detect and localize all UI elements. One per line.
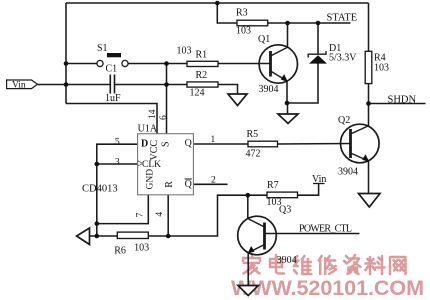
wire Q3 base POWER CTL — [265, 233, 360, 235]
svg-text:14: 14 — [148, 109, 158, 119]
port Vin terminal right — [312, 174, 326, 185]
junction pin 7 on D column — [95, 221, 100, 226]
wire pin 2 Qbar stub — [193, 183, 227, 185]
svg-text:GND: GND — [145, 169, 155, 190]
svg-text:SHDN: SHDN — [388, 95, 417, 106]
resistor R2 — [187, 70, 218, 99]
wire Q1 emitter to ground — [286, 81, 288, 103]
ground under Q3 — [238, 286, 258, 296]
wire ground stub Q1 — [287, 103, 289, 114]
wire Vin to VCC pin 14 — [66, 104, 157, 134]
svg-text:Q: Q — [185, 138, 193, 149]
wire STATE node — [268, 22, 351, 24]
zener diode D1 — [308, 43, 357, 64]
wire pin 3 CLK input — [97, 163, 138, 165]
svg-text:R3: R3 — [236, 8, 248, 19]
svg-text:C1: C1 — [106, 64, 118, 75]
wire Vin to C1 — [38, 84, 111, 86]
watermark chinese text 家电维修资料网 — [243, 255, 406, 274]
transistor Q3 — [238, 205, 297, 267]
svg-text:6: 6 — [159, 115, 169, 120]
svg-text:Vin: Vin — [12, 81, 26, 91]
junction Q1 collector on STATE node — [285, 21, 290, 26]
wire left vertical — [65, 3, 67, 104]
port Vin flag left — [7, 80, 38, 91]
junction Vin flag on left rail — [64, 82, 69, 87]
junction pin 3 on D column — [95, 162, 100, 167]
svg-text:U1A: U1A — [138, 123, 158, 134]
svg-text:R: R — [164, 181, 175, 188]
switch S1 — [97, 43, 128, 67]
svg-text:Q2: Q2 — [338, 115, 350, 126]
junction pin 4 on R6 row — [166, 234, 171, 239]
junction D1 cathode on STATE node — [316, 21, 321, 26]
junction Q3 collector on R7 node — [246, 193, 251, 198]
junction Q1 emitter with D1 anode — [285, 101, 290, 106]
svg-text:1: 1 — [211, 135, 216, 145]
IC U1A CD4013 — [82, 109, 216, 217]
wire top rail — [66, 2, 369, 4]
ground under Q1 and D1 — [278, 114, 298, 124]
resistor R5 — [246, 129, 278, 160]
wire pin 7 GND — [97, 195, 149, 224]
svg-text:S1: S1 — [97, 43, 108, 54]
resistor R6 — [114, 232, 149, 256]
svg-text:5/3.3V: 5/3.3V — [329, 53, 357, 64]
arrow port left of R6 — [77, 228, 90, 245]
wire R6 to R7 riser — [148, 195, 267, 236]
transistor Q2 — [338, 115, 379, 178]
wire R2 to ground stub — [218, 85, 238, 95]
svg-text:R2: R2 — [196, 70, 208, 81]
wire pin 1 Q to R5 — [193, 143, 248, 145]
junction R1 left with S column — [164, 61, 169, 66]
svg-text:R7: R7 — [267, 180, 279, 191]
svg-text:472: 472 — [246, 149, 261, 160]
svg-text:STATE: STATE — [327, 13, 358, 24]
svg-text:CD4013: CD4013 — [82, 183, 118, 194]
svg-text:WWW.520101.COM: WWW.520101.COM — [231, 276, 424, 300]
transistor Q1 — [258, 34, 297, 95]
svg-text:7: 7 — [135, 212, 145, 217]
svg-text:1uF: 1uF — [105, 93, 121, 104]
svg-text:R5: R5 — [247, 129, 259, 140]
wire Q1 collector — [287, 23, 289, 47]
svg-text:103: 103 — [374, 63, 389, 74]
wire R3 stub from rail — [217, 3, 237, 23]
resistor R3 — [236, 8, 268, 37]
junction D column on R6 row — [95, 234, 100, 239]
wire pin 4 R input — [167, 195, 169, 236]
svg-text:3: 3 — [115, 157, 120, 167]
wire S1 left — [66, 63, 97, 65]
svg-text:Q1: Q1 — [258, 34, 270, 45]
svg-text:VCC: VCC — [149, 140, 160, 161]
svg-text:4: 4 — [155, 212, 165, 217]
svg-text:3904: 3904 — [259, 84, 279, 95]
svg-text:103: 103 — [236, 26, 251, 37]
wire S1 right to R1 — [128, 63, 187, 65]
svg-text:103: 103 — [134, 243, 149, 254]
svg-text:Q3: Q3 — [279, 205, 291, 216]
resistor R7 — [267, 180, 298, 208]
svg-text:3904: 3904 — [338, 167, 358, 178]
wire D1 anode down — [287, 64, 318, 104]
wire pin 5 D input — [97, 144, 138, 236]
svg-text:3904: 3904 — [277, 255, 297, 266]
svg-text:R6: R6 — [114, 246, 126, 257]
ground under R2 — [228, 94, 247, 106]
junction R3 stub on top rail — [215, 1, 220, 6]
wire R1 to Q1 base — [218, 63, 271, 65]
wire Q2 collector — [368, 104, 370, 126]
wire node S column — [166, 64, 168, 134]
resistor R1 — [177, 46, 219, 67]
wire Q3 collector — [247, 195, 249, 218]
svg-text:Q: Q — [185, 179, 193, 190]
svg-text:124: 124 — [190, 88, 205, 99]
svg-text:D: D — [141, 139, 148, 150]
resistor R4 — [365, 51, 389, 83]
wire R7 to Vin terminal — [298, 184, 319, 196]
junction R2 left with S column — [164, 82, 169, 87]
wire SHDN label stub — [369, 103, 426, 105]
capacitor C1 — [105, 64, 121, 105]
junction S1 left on Vin rail — [64, 61, 69, 66]
svg-text:S: S — [161, 141, 172, 147]
svg-text:103: 103 — [177, 46, 192, 57]
wire Q2 emitter to ground — [368, 161, 370, 194]
junction SHDN node — [366, 101, 371, 106]
svg-text:2: 2 — [211, 176, 216, 186]
wire D1 cathode up — [317, 23, 319, 54]
wire R4 top — [368, 3, 370, 51]
svg-text:Vin: Vin — [312, 174, 326, 185]
svg-text:POWER_CTL: POWER_CTL — [299, 224, 352, 235]
wire Q3 emitter to ground — [247, 253, 249, 286]
wire R6 row — [90, 235, 118, 237]
ground under Q2 — [359, 194, 381, 208]
wire C1 to R2 — [115, 84, 188, 86]
svg-text:CLK: CLK — [142, 160, 161, 170]
svg-text:5: 5 — [115, 138, 120, 148]
wire R4 bottom to SHDN node — [368, 84, 370, 104]
svg-text:R1: R1 — [196, 50, 208, 61]
wire R5 to Q2 base — [278, 143, 351, 146]
